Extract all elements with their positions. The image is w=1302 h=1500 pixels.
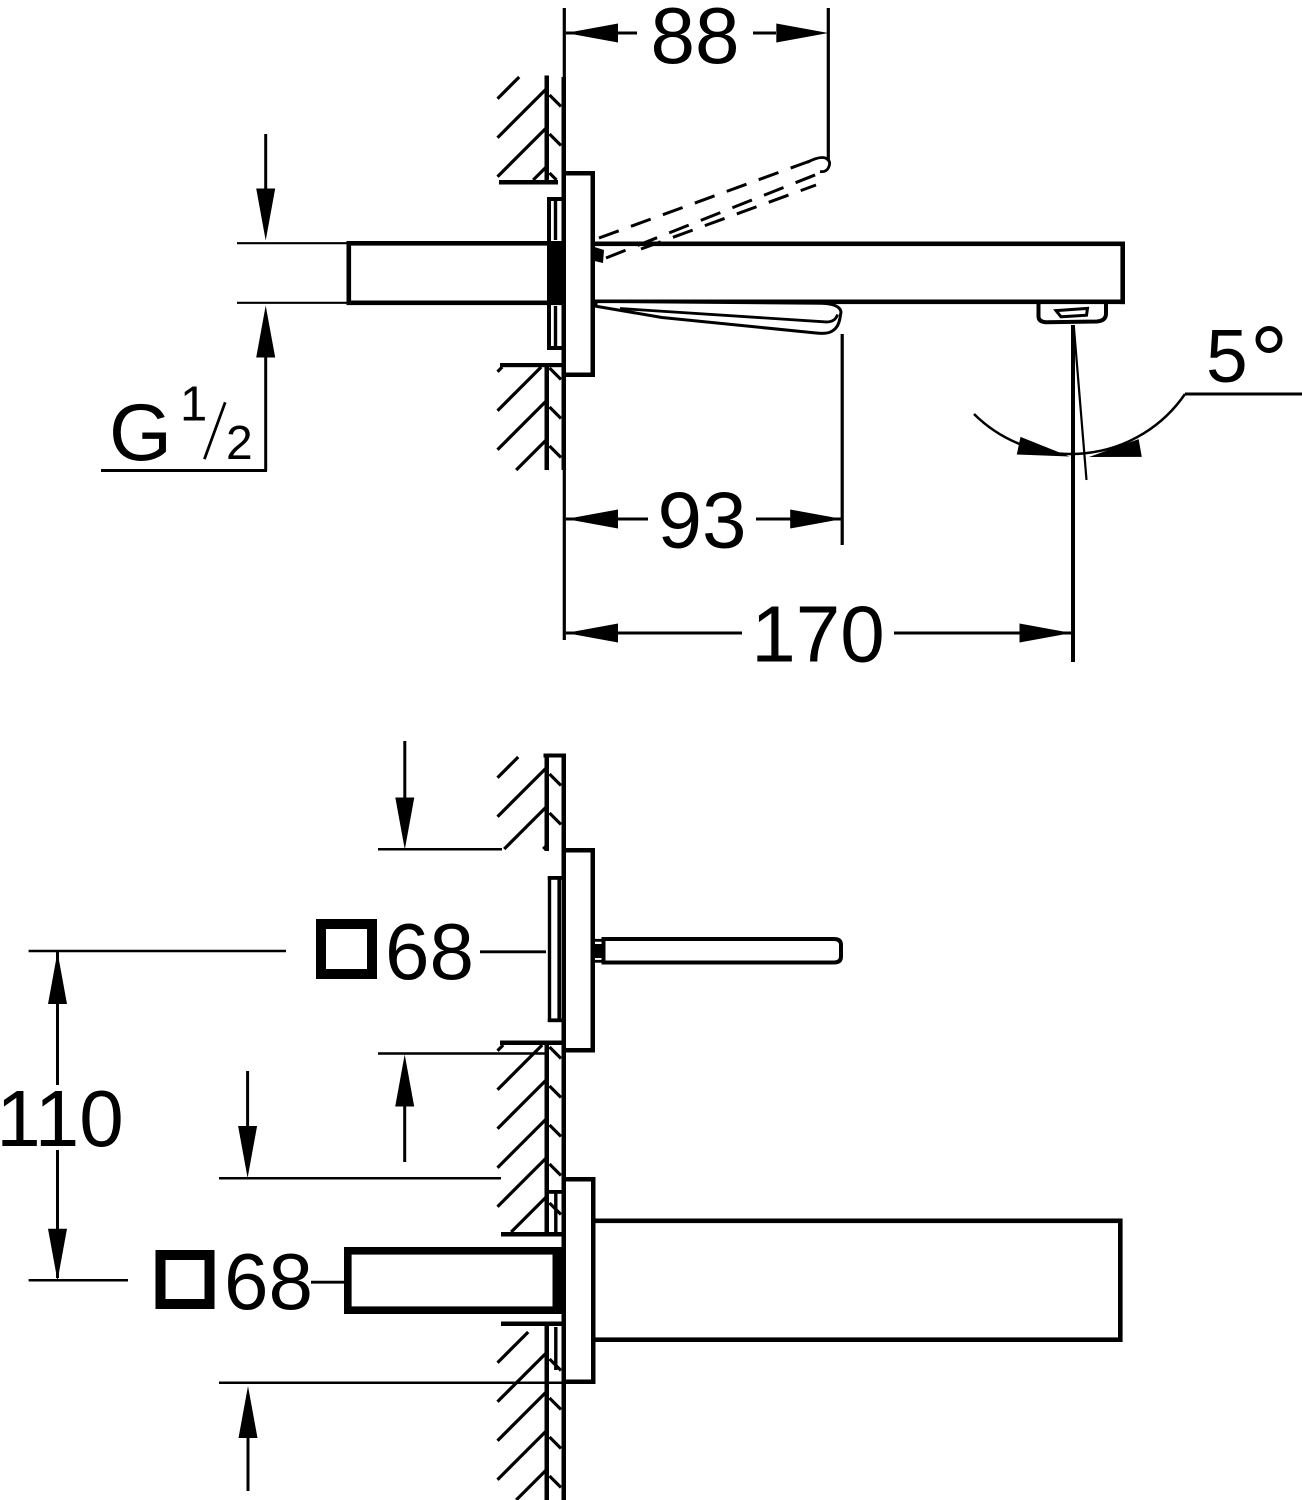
170 dim arrowhead left xyxy=(566,624,618,643)
wall surface line lower segment (side view) xyxy=(562,377,567,470)
extension line continuation of wall surface down to 170 dim xyxy=(563,470,566,640)
supply pipe top edge (side view) xyxy=(347,241,562,246)
down arrowhead to upper plate top edge xyxy=(395,798,414,850)
upper wall plate (plan view) xyxy=(562,848,567,1053)
93 dim arrowhead left xyxy=(566,510,618,529)
93 dimension line right segment xyxy=(756,518,842,521)
up arrow shaft below upper plate xyxy=(403,1106,406,1162)
down arrow shaft above pipe (G1/2) xyxy=(264,134,267,192)
svg-text:170: 170 xyxy=(751,590,884,679)
rough-in box inner line upper segment xyxy=(554,201,557,240)
spout body (plan view) xyxy=(596,1219,1123,1224)
extension line left of 88 dim (wall surface, upper) xyxy=(563,8,566,77)
degree symbol circle xyxy=(1258,329,1280,351)
wall cut line above lower valve (plan) xyxy=(501,1232,562,1237)
wall hatch section A (plan) xyxy=(498,757,519,778)
wall back line segment A (plan) xyxy=(545,757,550,851)
svg-text:110: 110 xyxy=(0,1074,124,1163)
handle lever bar (plan view) xyxy=(604,939,842,963)
wall surface line segment C (plan) xyxy=(562,1384,567,1500)
reference line at lower plate bottom edge xyxy=(219,1381,563,1384)
upper valve box bottom cap xyxy=(548,1018,562,1022)
wall cut line below upper plate (plan) xyxy=(500,1041,562,1046)
up arrow shaft / leader vertical for G1/2 xyxy=(264,358,267,472)
down arrowhead to lower plate top edge xyxy=(238,1126,257,1178)
down arrowhead to pipe top edge xyxy=(256,189,275,241)
leader line from arc to 5 degree text xyxy=(1185,393,1302,396)
wall back line segment C (plan) xyxy=(545,1326,550,1500)
wall back line lower segment (side view) xyxy=(545,367,550,470)
wall back line segment B (plan) xyxy=(545,1045,550,1232)
down arrow shaft above upper plate xyxy=(403,741,406,800)
upper valve box left inner line (plan) xyxy=(548,876,551,1022)
up arrowhead to pipe bottom edge xyxy=(256,306,275,358)
lever open inner dashed edge xyxy=(641,185,816,249)
down arrow shaft above lower plate xyxy=(246,1071,249,1126)
aerator slanted slot detail xyxy=(1056,308,1088,316)
88 dim arrowhead left xyxy=(566,24,618,43)
up arrowhead to upper plate bottom edge xyxy=(395,1055,414,1107)
110 dimension line upper segment xyxy=(56,952,59,1085)
center line of upper valve (110 top reference) xyxy=(29,950,286,953)
wall top cap (plan view) xyxy=(544,754,567,758)
G1/2 leader horizontal underline xyxy=(101,469,267,472)
svg-text:88: 88 xyxy=(651,0,740,80)
lever handle closed position (solid outline) xyxy=(596,302,841,334)
wall hatch lower section (side view) xyxy=(498,367,503,372)
rough-in box inner line lower segment xyxy=(554,306,557,346)
black fill where spout supply passes wall (plan) xyxy=(553,1248,567,1313)
supply pipe left end edge xyxy=(347,241,352,305)
lever closed inner edge line xyxy=(620,309,838,322)
wall hatch section C (plan) xyxy=(498,1332,529,1363)
black fill where pipe passes wall (side view) xyxy=(551,243,566,303)
extension line right of 88 dim (to raised lever tip) xyxy=(827,8,830,161)
88 dimension line right segment xyxy=(753,32,776,35)
center line of lower valve (110 bottom reference) xyxy=(29,1279,128,1282)
170 dimension line right segment xyxy=(894,632,1071,635)
reference line at upper plate top edge xyxy=(378,848,502,851)
spout supply connection (plan view, thick outline) xyxy=(344,1247,562,1255)
wall cut line above lower hatch (side view) xyxy=(500,363,562,367)
black pivot mark at plate where levers meet xyxy=(595,247,605,263)
reference line at lower plate top edge xyxy=(219,1177,501,1180)
vertical reference line from outlet down to 170 dim xyxy=(1071,325,1075,662)
svg-text:68: 68 xyxy=(385,907,474,996)
wall back line upper segment (side view) xyxy=(545,76,550,182)
handle stem connector top line xyxy=(595,939,602,942)
water stream line tilted 5 degrees xyxy=(1074,326,1087,480)
pipe bottom edge thin extension line xyxy=(237,302,347,304)
pipe top edge thin extension line xyxy=(237,242,347,244)
square symbol for lower 68 xyxy=(161,1255,210,1304)
lower valve box top cap xyxy=(549,1190,562,1194)
leader line from upper 68 to valve xyxy=(480,950,546,953)
lower wall plate (plan view) xyxy=(562,1177,567,1384)
upper valve box top cap xyxy=(548,876,562,880)
reference line at upper plate bottom edge xyxy=(378,1052,547,1055)
88 dim arrowhead right xyxy=(776,24,828,43)
svg-text:5: 5 xyxy=(1206,314,1248,398)
handle stem connector bottom line xyxy=(595,960,602,963)
wall hatch upper section (side view) xyxy=(498,77,520,99)
93 dim arrowhead right xyxy=(790,510,842,529)
110 dim arrowhead top xyxy=(48,952,67,1004)
88 dimension line left segment xyxy=(566,32,637,35)
rough-in box top cap xyxy=(547,197,562,201)
wall cut line below upper hatch (side view) xyxy=(499,180,558,185)
170 dimension line left segment xyxy=(566,632,742,635)
lower valve box inner line lower segment xyxy=(554,1327,557,1370)
up arrowhead to lower plate bottom edge xyxy=(239,1386,258,1438)
lever open rounded tip xyxy=(807,158,830,172)
110 dim arrowhead bottom xyxy=(48,1229,67,1281)
93 dimension line left segment xyxy=(566,518,648,521)
rough-in box bottom cap xyxy=(547,346,562,350)
svg-text:1: 1 xyxy=(180,378,207,432)
fraction slash of G1/2 xyxy=(204,402,225,459)
aerator outlet under spout tip xyxy=(1039,302,1107,322)
square symbol for upper 68 xyxy=(321,924,372,974)
svg-text:93: 93 xyxy=(658,476,747,565)
110 dimension line lower segment xyxy=(56,1150,59,1278)
wall surface line segment B (plan) xyxy=(562,1053,567,1178)
extension line right of 93 dim (from closed lever tip) xyxy=(841,334,844,545)
wall cut line below lower valve (plan) xyxy=(501,1322,562,1327)
black fill where handle stem meets plate xyxy=(594,944,603,958)
spout body (side view) xyxy=(595,242,1125,247)
wall surface line segment A (plan) xyxy=(562,754,567,849)
svg-text:68: 68 xyxy=(224,1237,313,1326)
wall plate (escutcheon) side view xyxy=(562,171,567,377)
up arrow shaft below lower plate xyxy=(247,1438,250,1492)
lower valve box inner line upper segment xyxy=(554,1190,557,1232)
arc arrowhead pointing at vertical reference line xyxy=(1017,437,1072,465)
lever handle open position (dashed outline) xyxy=(599,161,810,238)
wall surface line upper segment (side view) xyxy=(562,77,567,171)
wall hatch section B (plan) xyxy=(498,1045,504,1051)
svg-text:2: 2 xyxy=(226,417,253,470)
svg-text:G: G xyxy=(109,388,172,478)
arc arrowhead pointing at tilted stream line xyxy=(1087,439,1141,466)
5 degree dimension arc xyxy=(974,394,1185,454)
leader line from lower 68 to supply elbow xyxy=(311,1281,345,1284)
upper valve box right inner line (plan) xyxy=(557,876,561,1022)
rough-in box left edge (side view) xyxy=(547,197,551,350)
supply pipe bottom edge (side view) xyxy=(347,301,562,306)
170 dim arrowhead right xyxy=(1020,624,1072,643)
